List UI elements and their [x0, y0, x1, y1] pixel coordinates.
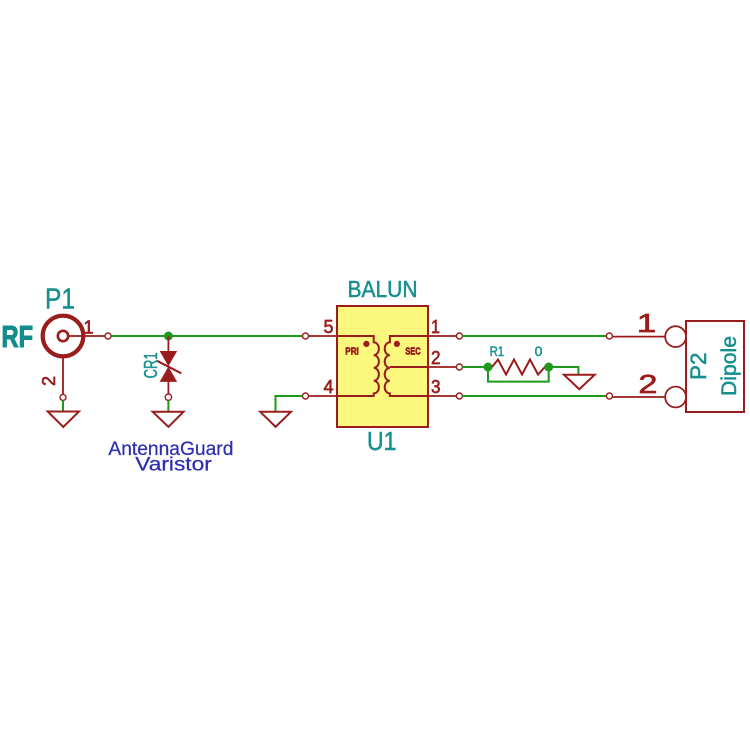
CR1 open pad — [165, 394, 171, 400]
value text Dipole — [718, 336, 741, 396]
P2 pin 1 number — [637, 308, 657, 337]
P2 pin 1 circle — [665, 326, 686, 347]
varistor CR1 diagonal stroke — [157, 361, 181, 374]
svg-text:SEC: SEC — [405, 347, 421, 358]
wire junction to CR1 — [167, 336, 169, 352]
transformer U1 body box — [337, 306, 428, 427]
CR1 lead to pad — [167, 381, 169, 394]
P1 pin 2 lead — [62, 358, 64, 395]
P1 pin 2 open pad — [60, 394, 66, 400]
U1 pin 2 open pad — [456, 364, 462, 370]
junction right of R1 — [544, 363, 553, 372]
connector P2 body box — [686, 321, 744, 412]
svg-text:2: 2 — [39, 376, 59, 386]
U1 pin 3 lead — [428, 395, 456, 397]
wire CR1 pad to ground — [167, 400, 169, 411]
U1 pin 4 open pad — [303, 393, 309, 399]
U1 pin 2 lead — [428, 366, 456, 368]
svg-text:U1: U1 — [367, 426, 397, 456]
varistor CR1 upper triangle — [161, 352, 177, 366]
open pad right end of net 1 — [606, 333, 612, 339]
svg-text:PRI: PRI — [345, 347, 359, 358]
U1 primary winding — [337, 336, 379, 396]
svg-text:1: 1 — [637, 308, 657, 337]
U1 secondary winding — [385, 336, 428, 396]
svg-text:Dipole: Dipole — [718, 336, 741, 396]
svg-text:2: 2 — [638, 370, 657, 399]
U1 pin 4 lead — [309, 395, 338, 397]
junction at CR1 tap — [164, 332, 173, 341]
svg-text:3: 3 — [431, 377, 441, 397]
U1 pin 5 open pad — [303, 333, 309, 339]
svg-text:RF: RF — [2, 319, 34, 354]
label P2 — [686, 353, 711, 381]
P1 pin 2 number — [39, 376, 59, 386]
P2 pin 2 lead — [612, 396, 665, 398]
wire BALUN pin 3 to P2 pin 2 — [462, 395, 606, 397]
svg-text:R1: R1 — [490, 343, 505, 359]
wire BALUN pin 1 to P2 pin 1 — [462, 335, 606, 337]
wire pad P1.2 to ground — [62, 400, 64, 411]
wire R1 to ground — [549, 367, 579, 375]
U1 pin 3 open pad — [456, 393, 462, 399]
U1 pin 1 lead — [428, 335, 456, 337]
ground symbol at R1 — [564, 375, 595, 390]
U1 secondary center tap to pin 2 — [390, 366, 428, 368]
junction left of R1 — [484, 363, 493, 372]
U1 pin 1 open pad — [456, 333, 462, 339]
svg-text:1: 1 — [83, 318, 93, 338]
svg-text:0: 0 — [535, 343, 543, 359]
svg-text:P2: P2 — [686, 353, 711, 381]
wire BALUN pin 4 to ground — [276, 396, 303, 412]
U1 secondary polarity dot — [394, 341, 400, 347]
connector P1 BNC outer circle — [43, 316, 84, 357]
svg-text:1: 1 — [431, 317, 440, 337]
P1 pin 1 lead — [69, 335, 105, 337]
U1 pin 5 lead — [309, 335, 338, 337]
ground symbol at BALUN pin 4 — [260, 412, 291, 427]
ground symbol at CR1 — [153, 412, 184, 427]
svg-text:CR1: CR1 — [141, 352, 161, 378]
label CR1 — [141, 352, 161, 378]
ground symbol at P1 pin 2 — [48, 412, 79, 428]
P2 pin 1 lead — [612, 336, 665, 338]
svg-text:BALUN: BALUN — [348, 276, 418, 302]
P2 pin 2 circle — [665, 387, 686, 408]
open pad right end of net 3 — [606, 393, 612, 399]
wire P1.1 to BALUN pin 5 — [111, 335, 303, 337]
svg-text:2: 2 — [431, 348, 441, 368]
connector P1 BNC inner circle — [58, 331, 68, 341]
U1 primary polarity dot — [363, 341, 369, 347]
svg-text:P1: P1 — [45, 284, 75, 316]
svg-text:4: 4 — [324, 377, 334, 397]
varistor CR1 lower triangle — [161, 368, 177, 382]
P2 pin 2 number — [638, 370, 657, 399]
svg-text:5: 5 — [324, 317, 334, 337]
wire BALUN pin 2 to R1 — [462, 366, 486, 368]
svg-text:Varistor: Varistor — [135, 453, 212, 475]
P1 pin 1 open pad — [105, 333, 111, 339]
wire bypass under R1 — [488, 367, 549, 382]
resistor R1 zigzag — [492, 360, 548, 375]
